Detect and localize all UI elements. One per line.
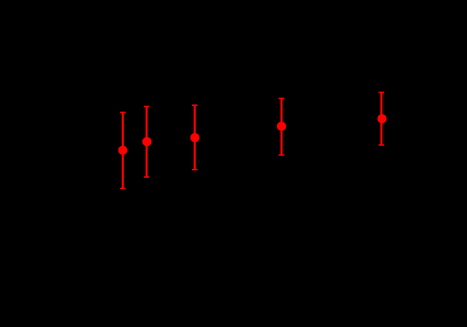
- errorbar point 2: [142, 107, 151, 178]
- errorbar point 4: [277, 98, 286, 155]
- errorbar point 1: [118, 112, 127, 188]
- errorbar point 3: [190, 105, 199, 169]
- errorbar point 5: [377, 92, 386, 145]
